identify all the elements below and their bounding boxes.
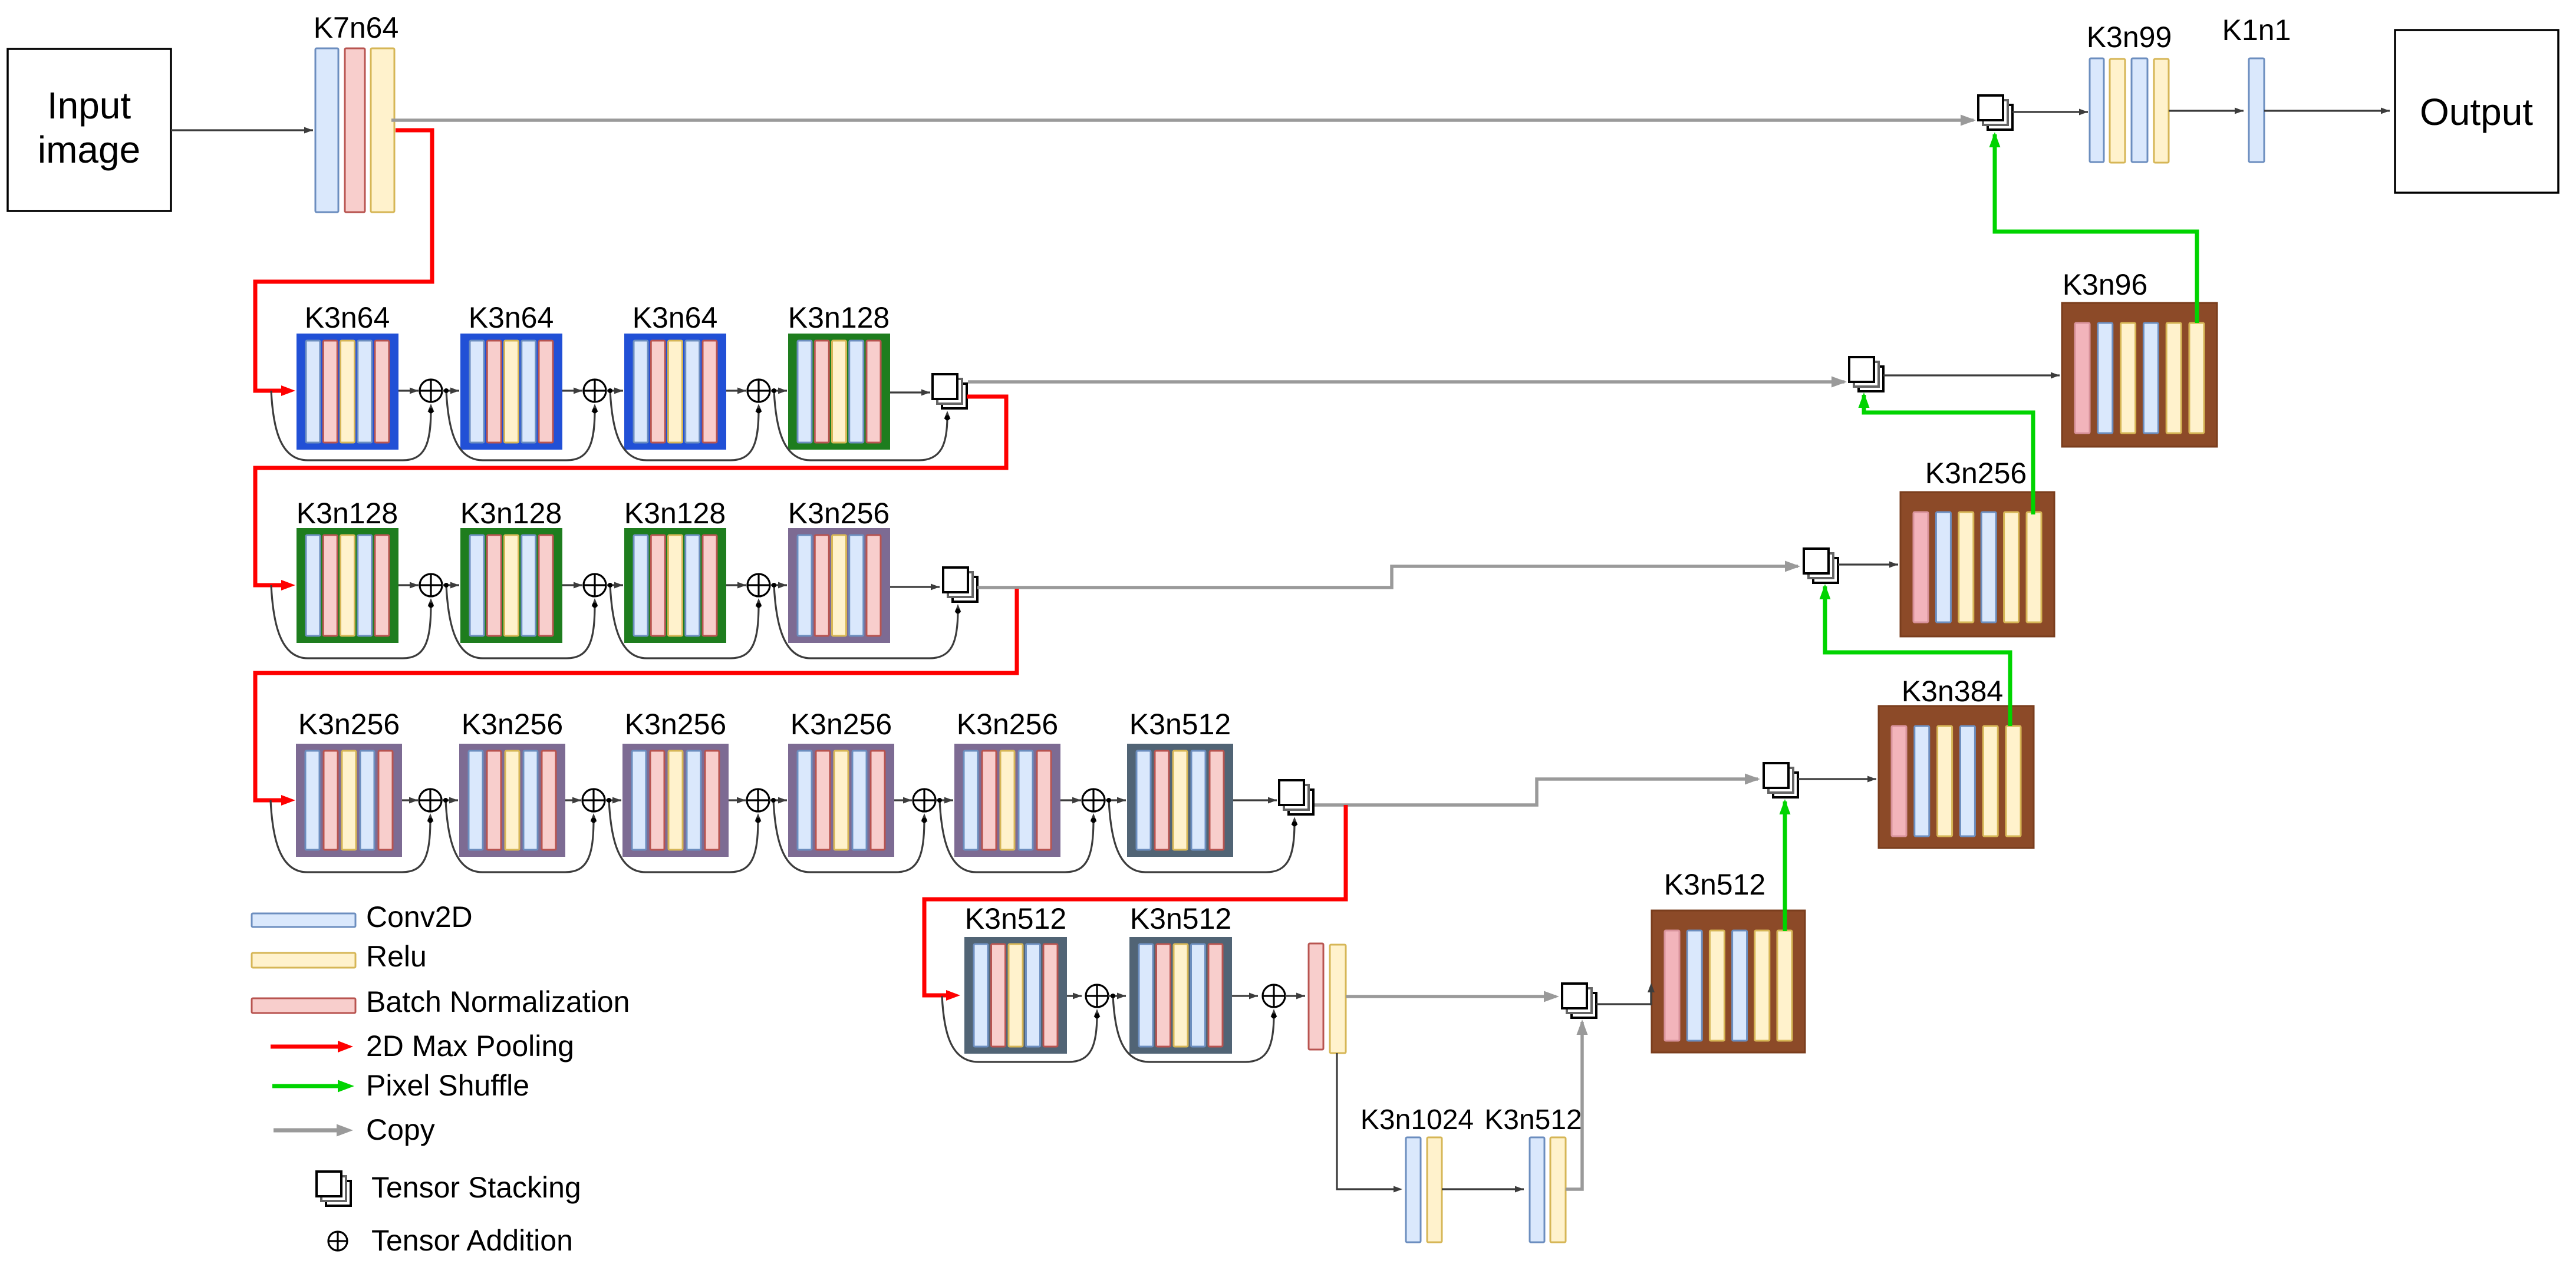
svg-text:K3n64: K3n64	[469, 301, 554, 334]
svg-text:Conv2D: Conv2D	[366, 900, 473, 933]
conv block K3n512 row5 #1	[964, 937, 1067, 1054]
wire row2 add1 to block2	[442, 388, 459, 394]
deconv block K3n512	[1652, 910, 1805, 1052]
conv block K3n128 row3 #1	[297, 528, 398, 643]
skip connection row4 block4	[771, 798, 928, 872]
deconv block K3n96	[2062, 303, 2217, 447]
skip connection row4 block6	[1106, 798, 1298, 872]
batchnorm bar row5	[1309, 943, 1323, 1050]
svg-text:K3n128: K3n128	[624, 497, 726, 530]
wire K3n1024 to K3n512	[1442, 1186, 1524, 1193]
pixel shuffle K3n256 to row2 stack	[1859, 392, 2034, 514]
skip connection row2 block4	[772, 388, 951, 460]
svg-text:K3n512: K3n512	[1129, 708, 1231, 741]
wire stack to K3n384	[1798, 776, 1876, 783]
svg-text:Relu: Relu	[366, 940, 427, 973]
wire row3 block3 to add3	[726, 582, 746, 589]
deconv block K3n384	[1879, 706, 2034, 848]
tensor addition row3 #2	[584, 574, 606, 596]
svg-text:K3n256: K3n256	[625, 708, 726, 741]
tensor addition row3 #1	[420, 574, 442, 596]
conv block K3n64 row2 #1	[297, 334, 398, 450]
arrowhead into K3n512 deconv block	[1648, 983, 1655, 1005]
legend Pixel Shuffle arrow	[272, 1080, 354, 1093]
pixel shuffle K3n96 to row1 stack	[1989, 132, 2198, 323]
copy wire row4	[1315, 774, 1760, 806]
skip connection row4 block5	[937, 798, 1097, 872]
tensor addition row2 #1	[420, 380, 442, 402]
svg-text:K3n512: K3n512	[1664, 868, 1765, 901]
conv block K3n512 row5 #2	[1129, 937, 1232, 1054]
skip connection row4 block1	[271, 800, 434, 872]
conv block K3n64 row2 #2	[460, 334, 562, 450]
skip connection row2 block2	[444, 388, 598, 460]
maxpool wire row3 to row4	[255, 589, 1017, 806]
skip connection row3 block1	[271, 585, 434, 658]
wire stack to K3n256	[1838, 562, 1898, 568]
wire row4 block5 to add5	[1060, 797, 1081, 804]
conv block K3n256 row4 #3	[622, 744, 729, 857]
conv block K3n128 row3 #3	[624, 528, 726, 643]
wire row4 block6 to stack	[1233, 797, 1277, 804]
svg-text:Batch Normalization: Batch Normalization	[366, 985, 630, 1018]
conv bar K3n1024 Conv2D	[1406, 1137, 1421, 1242]
conv bar K3n99 Conv2D 1	[2090, 58, 2104, 162]
pixel shuffle K3n384 to row3 stack	[1820, 584, 2011, 726]
maxpool wire row2 to row3	[255, 397, 1006, 590]
tensor stacking row5	[1562, 984, 1596, 1018]
wire row3 block4 to stack	[890, 584, 940, 590]
legend tensor stacking icon	[317, 1172, 351, 1206]
svg-text:K3n128: K3n128	[460, 497, 562, 530]
relu bar K3n1024	[1427, 1137, 1442, 1242]
pixel shuffle K3n512 to row4 stack	[1780, 799, 1791, 931]
svg-text:K3n512: K3n512	[965, 902, 1066, 935]
svg-text:K3n256: K3n256	[1925, 457, 2027, 490]
wire row2 block4 to stack	[890, 390, 930, 396]
wire input to K7n64	[171, 127, 313, 134]
legend Relu swatch	[252, 953, 355, 968]
wire row5 add2 to bn bar	[1285, 993, 1305, 999]
svg-text:K3n1024: K3n1024	[1361, 1104, 1474, 1136]
svg-text:Input: Input	[47, 84, 131, 127]
wire row3 add1 to block2	[442, 582, 459, 589]
wire row5 stack to K3n512 block	[1596, 989, 1651, 1004]
wire row2 add3 to block4	[770, 388, 787, 394]
conv block K3n128 row3 #2	[460, 528, 562, 643]
skip connection row4 block2	[443, 798, 597, 872]
tensor stacking right row3	[1804, 549, 1838, 583]
svg-text:Output: Output	[2420, 91, 2533, 133]
conv block K3n256 row3 #4	[788, 528, 890, 643]
wire row4 add1 to block2	[442, 797, 458, 804]
relu bar K3n99 1	[2110, 59, 2125, 163]
tensor addition row4 #4	[913, 789, 935, 811]
input box	[8, 49, 171, 211]
copy wire row3	[977, 561, 1800, 588]
svg-text:K3n64: K3n64	[633, 301, 718, 334]
copy wire bottleneck up to stack row5	[1566, 1019, 1588, 1189]
tensor stacking row3	[943, 567, 977, 602]
wire row2 add2 to block3	[606, 388, 623, 394]
tensor stacking row1	[1978, 95, 2012, 130]
tensor stacking row2	[933, 374, 967, 408]
maxpool wire row4 to row5	[924, 805, 1346, 1001]
deconv block K3n256	[1900, 492, 2054, 636]
conv bar K7n64 Conv2D	[315, 48, 338, 212]
output box	[2395, 30, 2558, 193]
legend 2D Max Pooling arrow	[271, 1041, 353, 1052]
conv bar K3n512 Conv2D	[1530, 1137, 1544, 1242]
wire row3 block2 to add2	[562, 582, 582, 589]
wire row4 add3 to block4	[769, 797, 787, 804]
wire row5 add1 to block2	[1108, 993, 1126, 999]
svg-text:K3n256: K3n256	[957, 708, 1058, 741]
relu bar row5	[1330, 945, 1346, 1053]
legend Conv2D swatch	[252, 913, 355, 927]
svg-text:K3n96: K3n96	[2063, 268, 2148, 301]
skip connection row5 block1	[942, 996, 1101, 1062]
conv block K3n512 row4 #6	[1127, 744, 1233, 857]
tensor stacking right row2	[1849, 357, 1883, 391]
wire row4 add4 to block5	[935, 797, 953, 804]
skip connection row3 block3	[608, 583, 762, 658]
svg-text:Tensor Stacking: Tensor Stacking	[371, 1171, 581, 1204]
svg-text:K3n99: K3n99	[2087, 21, 2172, 54]
wire row4 add2 to block3	[605, 797, 621, 804]
wire row3 add3 to block4	[770, 582, 787, 589]
wire row5 block1 to add1	[1067, 993, 1082, 999]
svg-text:Pixel Shuffle: Pixel Shuffle	[366, 1069, 529, 1102]
wire stack to K3n99	[2012, 109, 2088, 116]
wire row2 block1 to add1	[398, 388, 419, 394]
wire row4 block1 to add1	[402, 797, 418, 804]
svg-text:K3n256: K3n256	[790, 708, 892, 741]
relu bar K7n64	[371, 48, 394, 212]
svg-text:K3n128: K3n128	[297, 497, 398, 530]
conv bar K3n99 Conv2D 2	[2132, 58, 2147, 162]
svg-text:image: image	[38, 128, 140, 171]
copy wire row5 to stack	[1346, 991, 1559, 1002]
svg-text:2D Max Pooling: 2D Max Pooling	[366, 1030, 574, 1063]
wire row4 add5 to block6	[1105, 797, 1126, 804]
svg-text:K3n512: K3n512	[1484, 1104, 1582, 1136]
relu bar K3n512 bottleneck	[1550, 1137, 1566, 1242]
svg-text:K3n64: K3n64	[305, 301, 390, 334]
conv block K3n256 row4 #4	[788, 744, 894, 857]
wire down from relu bar to bottleneck	[1337, 1053, 1402, 1193]
wire row4 block2 to add2	[565, 797, 581, 804]
legend tensor addition icon	[328, 1232, 347, 1250]
tensor stacking right row4	[1764, 763, 1798, 797]
conv block K3n256 row4 #5	[954, 744, 1060, 857]
tensor addition row2 #2	[584, 380, 606, 402]
tensor addition row4 #1	[419, 789, 442, 811]
wire row2 block3 to add3	[726, 388, 746, 394]
tensor addition row4 #3	[747, 789, 769, 811]
skip connection row3 block4	[772, 583, 961, 658]
wire row3 add2 to block3	[606, 582, 623, 589]
tensor addition row5 #1	[1086, 985, 1108, 1007]
svg-text:K3n256: K3n256	[462, 708, 563, 741]
svg-text:K3n256: K3n256	[298, 708, 400, 741]
legend Copy arrow	[274, 1124, 353, 1137]
wire row4 block3 to add3	[729, 797, 746, 804]
maxpool wire row1 to row2	[255, 130, 432, 396]
batchnorm bar K7n64	[345, 48, 365, 212]
conv block K3n64 row2 #3	[624, 334, 726, 450]
skip connection row2 block1	[271, 391, 434, 460]
conv block K3n256 row4 #2	[459, 744, 565, 857]
svg-text:K3n256: K3n256	[788, 497, 890, 530]
svg-text:K7n64: K7n64	[314, 11, 399, 44]
tensor addition row2 #3	[747, 380, 770, 402]
tensor addition row4 #2	[582, 789, 605, 811]
skip connection row2 block3	[608, 388, 762, 460]
skip connection row5 block2	[1111, 994, 1277, 1062]
svg-text:K3n128: K3n128	[788, 301, 890, 334]
conv bar K1n1	[2249, 58, 2264, 162]
conv block K3n128 row2 #4	[788, 334, 890, 450]
skip connection row3 block2	[444, 583, 598, 658]
relu bar K3n99 2	[2154, 59, 2169, 163]
tensor addition row3 #3	[747, 574, 770, 596]
wire K3n99 to K1n1	[2169, 108, 2244, 114]
copy wire row2	[968, 377, 1847, 388]
svg-text:K3n512: K3n512	[1130, 902, 1231, 935]
svg-text:K1n1: K1n1	[2222, 14, 2291, 47]
wire row3 block1 to add1	[398, 582, 419, 589]
legend Batch Normalization swatch	[252, 998, 355, 1013]
svg-text:Tensor Addition: Tensor Addition	[371, 1224, 573, 1257]
skip connection row4 block3	[607, 798, 762, 872]
wire K1n1 to output	[2264, 108, 2390, 114]
svg-text:K3n384: K3n384	[1902, 675, 2003, 708]
tensor stacking row4	[1279, 780, 1313, 814]
wire row4 block4 to add4	[894, 797, 912, 804]
svg-text:Copy: Copy	[366, 1113, 435, 1146]
tensor addition row5 #2	[1263, 985, 1285, 1007]
wire stack to K3n96	[1883, 372, 2060, 379]
tensor addition row4 #5	[1082, 789, 1105, 811]
copy wire row1	[391, 115, 1976, 126]
conv block K3n256 row4 #1	[296, 744, 402, 857]
wire row2 block2 to add2	[562, 388, 582, 394]
wire row5 block2 to add2	[1232, 993, 1258, 999]
